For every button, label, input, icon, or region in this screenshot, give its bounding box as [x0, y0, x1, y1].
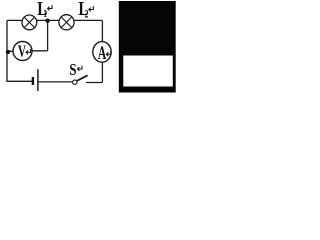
svg-text:V: V	[18, 42, 27, 61]
pilcrow mark after S	[78, 66, 83, 71]
wire top horizontal	[7, 19, 102, 21]
wire voltmeter branch right	[32, 50, 48, 52]
figure white caption area	[123, 56, 173, 87]
wire bottom right (switch to ammeter)	[86, 82, 102, 84]
battery cell: long thin positive plate	[37, 69, 38, 91]
label S	[69, 62, 82, 80]
wire voltmeter branch left	[7, 50, 14, 52]
switch S pivot contact	[73, 80, 77, 84]
blacked-out figure box	[119, 1, 176, 93]
battery cell: short thick negative plate	[32, 77, 34, 85]
voltmeter V	[13, 42, 32, 62]
svg-text:1: 1	[43, 7, 47, 20]
ammeter A	[93, 42, 111, 64]
wire right vertical	[101, 20, 103, 82]
label L1	[37, 0, 52, 20]
pilcrow mark after V	[26, 49, 31, 54]
label L2	[78, 0, 93, 21]
lamp L2	[59, 15, 74, 30]
lamp L1	[22, 15, 37, 30]
svg-text:2: 2	[85, 8, 89, 21]
wire bottom mid (battery to switch)	[38, 81, 72, 83]
junction node between lamps	[45, 19, 49, 23]
pilcrow mark after L1	[48, 5, 53, 10]
wire voltmeter branch vertical	[47, 21, 49, 51]
switch S blade	[77, 75, 88, 81]
pilcrow mark after L2	[89, 6, 94, 11]
wire bottom left (to battery)	[6, 80, 32, 82]
wire left vertical	[6, 20, 8, 81]
pilcrow mark after A	[106, 51, 111, 56]
svg-text:S: S	[69, 62, 76, 80]
junction node on left wire	[6, 50, 10, 54]
svg-text:A: A	[98, 44, 107, 64]
